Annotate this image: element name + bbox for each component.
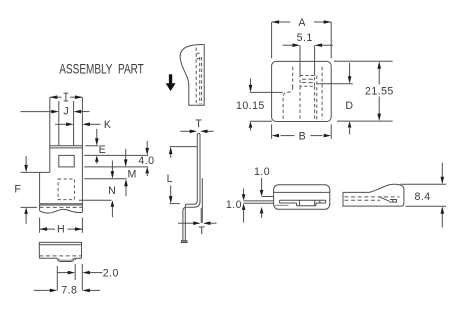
assembled top view rounded body	[274, 185, 330, 210]
dimension 5.1 extension lines	[299, 45, 301, 76]
cover side view outline	[180, 45, 204, 106]
assembled top view faint lower line	[275, 204, 289, 206]
svg-text:H: H	[57, 223, 65, 235]
svg-text:M: M	[128, 169, 137, 181]
front view left prong outer edge / body upper-left edge	[49, 97, 51, 172]
F bottom extension line	[21, 206, 38, 208]
svg-text:N: N	[108, 185, 116, 197]
dimension I line and label	[50, 96, 62, 98]
blade lines	[244, 200, 274, 202]
bottom extension line right	[337, 120, 393, 122]
svg-text:D: D	[345, 100, 353, 112]
dimension 2.0 extension lines	[56, 266, 58, 290]
svg-text:B: B	[299, 131, 307, 143]
clip side view inner layer stub	[200, 208, 202, 223]
cover side view dashed line 2	[199, 57, 201, 104]
cover front view body outline	[272, 61, 332, 121]
dimension 8.4 top extension line	[401, 183, 447, 185]
dimension A lines, arrows, label	[272, 21, 291, 23]
cover front hidden centre window dashed rect	[300, 76, 315, 87]
svg-text:4.0: 4.0	[138, 155, 154, 167]
cover side view dashed line 3	[201, 57, 203, 104]
svg-text:8.4: 8.4	[415, 191, 431, 203]
dashed-window-bottom extension line	[79, 199, 112, 201]
front view solid square window	[59, 155, 74, 167]
clip side view outer foot bend	[183, 202, 200, 241]
clip side view inner foot bend	[185, 201, 197, 241]
front view wavy break line	[40, 209, 83, 213]
dimension H extension lines	[39, 218, 41, 233]
svg-text:T: T	[198, 225, 205, 237]
svg-text:5.1: 5.1	[297, 32, 313, 44]
svg-text:F: F	[14, 183, 21, 195]
svg-text:10.15: 10.15	[236, 100, 265, 112]
dimension 8.4 bottom extension line	[406, 205, 447, 207]
cover front hidden hook dashed curve	[283, 87, 293, 120]
svg-text:T: T	[195, 118, 202, 130]
inner-edge extension line	[262, 196, 274, 198]
bottom extension line left	[250, 120, 272, 122]
dimension 4.0 arrows and label	[146, 141, 148, 148]
cover side view small hidden marks	[197, 52, 200, 54]
assembled top view slot centre box	[296, 203, 298, 206]
svg-text:E: E	[99, 144, 107, 156]
front view hidden dashed window	[58, 179, 74, 200]
dimension B lines, arrows, label	[281, 135, 295, 137]
svg-text:A: A	[298, 17, 306, 29]
svg-text:21.55: 21.55	[365, 86, 394, 98]
dimension 8.4 arrows and label	[441, 163, 443, 177]
dimension E arrows and label	[96, 129, 98, 139]
front view bottom double line	[40, 203, 83, 205]
cover front hidden dashed right line inner	[316, 76, 318, 120]
svg-text:2.0: 2.0	[103, 267, 119, 279]
front view left prong inner edge	[58, 101, 60, 146]
front view body top double edge	[50, 145, 83, 147]
clip side view wall top cap	[197, 133, 200, 135]
svg-text:1.0: 1.0	[226, 199, 242, 211]
svg-text:7.8: 7.8	[61, 285, 77, 297]
cover front centre window inner dashes	[302, 78, 306, 80]
dimension L arrows and label	[170, 153, 172, 158]
dimension 7.8 lines, arrows, label	[34, 289, 50, 291]
assembled side view dashed line lower	[345, 199, 381, 201]
square-bottom extension line	[84, 166, 148, 168]
bottom view bottom edge segments	[39, 257, 57, 259]
dimension 21.55 top extension line	[334, 60, 393, 62]
svg-text:K: K	[104, 119, 112, 131]
front view hidden dashed bottom line	[40, 206, 83, 208]
assembled top view inner edge line	[274, 191, 330, 193]
assembled top view slot end ticks	[279, 200, 281, 203]
seat line extension left	[250, 91, 283, 93]
assembled side view contact detail	[390, 200, 397, 203]
clip side view right wall	[199, 134, 201, 202]
clip side view inner layer line	[201, 178, 203, 223]
dimension B extension lines	[271, 124, 273, 139]
dimension H lines, arrows, label	[40, 228, 55, 230]
bottom view second top edge	[39, 244, 81, 246]
dimension J lines and label	[21, 111, 52, 113]
assembled top view slot top line	[280, 199, 326, 201]
clip side view left wall	[196, 134, 198, 201]
dimension L bottom extension line	[170, 203, 180, 205]
svg-text:J: J	[63, 106, 69, 118]
front view right prong inner edge	[73, 101, 75, 146]
bold insertion direction arrow	[166, 75, 175, 91]
assembled side view outline	[343, 184, 404, 206]
dimension K lines and label	[55, 123, 66, 125]
clip side view foot bottom cap	[181, 241, 187, 243]
assembled side view dashed line upper	[345, 196, 400, 198]
bottom view centre tab bump	[57, 258, 74, 261]
assembled top view slot bottom lines	[280, 202, 297, 204]
bottom view body outline	[39, 242, 81, 258]
dashed-window-top extension line	[84, 178, 126, 180]
bottom view dashed hidden line	[39, 255, 81, 257]
dimension 21.55 line, arrows, label	[378, 69, 380, 85]
svg-text:1.0: 1.0	[254, 166, 270, 178]
svg-text:L: L	[167, 173, 173, 185]
cover front hidden dashed right line outer	[321, 67, 323, 120]
dimension M arrows and label	[125, 149, 127, 160]
bottom view slot tick	[74, 258, 76, 260]
cover front hidden slot upper dashed line	[292, 67, 294, 87]
front view body lower-left edge	[39, 172, 41, 210]
front view right prong outer edge / body right edge	[81, 97, 83, 212]
svg-text:ASSEMBLY PART: ASSEMBLY PART	[59, 62, 144, 77]
dimension A extension lines	[271, 22, 273, 58]
dimension L top extension line	[170, 146, 198, 148]
square-top extension line	[84, 154, 148, 156]
assembled side view contact diagonal	[380, 197, 390, 201]
seat line extension right	[318, 83, 353, 85]
cover front hidden dashed lines below window	[299, 86, 301, 119]
dimension 2.0 lines, arrows, label	[57, 272, 68, 274]
cover side view dashed line 1	[195, 48, 197, 105]
dimension N arrows and label	[125, 186, 127, 197]
dimension E: body-top extension line	[85, 145, 98, 147]
front view body step edge and F extension line	[21, 171, 50, 173]
dimension T bottom lines, arrows, label	[178, 222, 194, 224]
